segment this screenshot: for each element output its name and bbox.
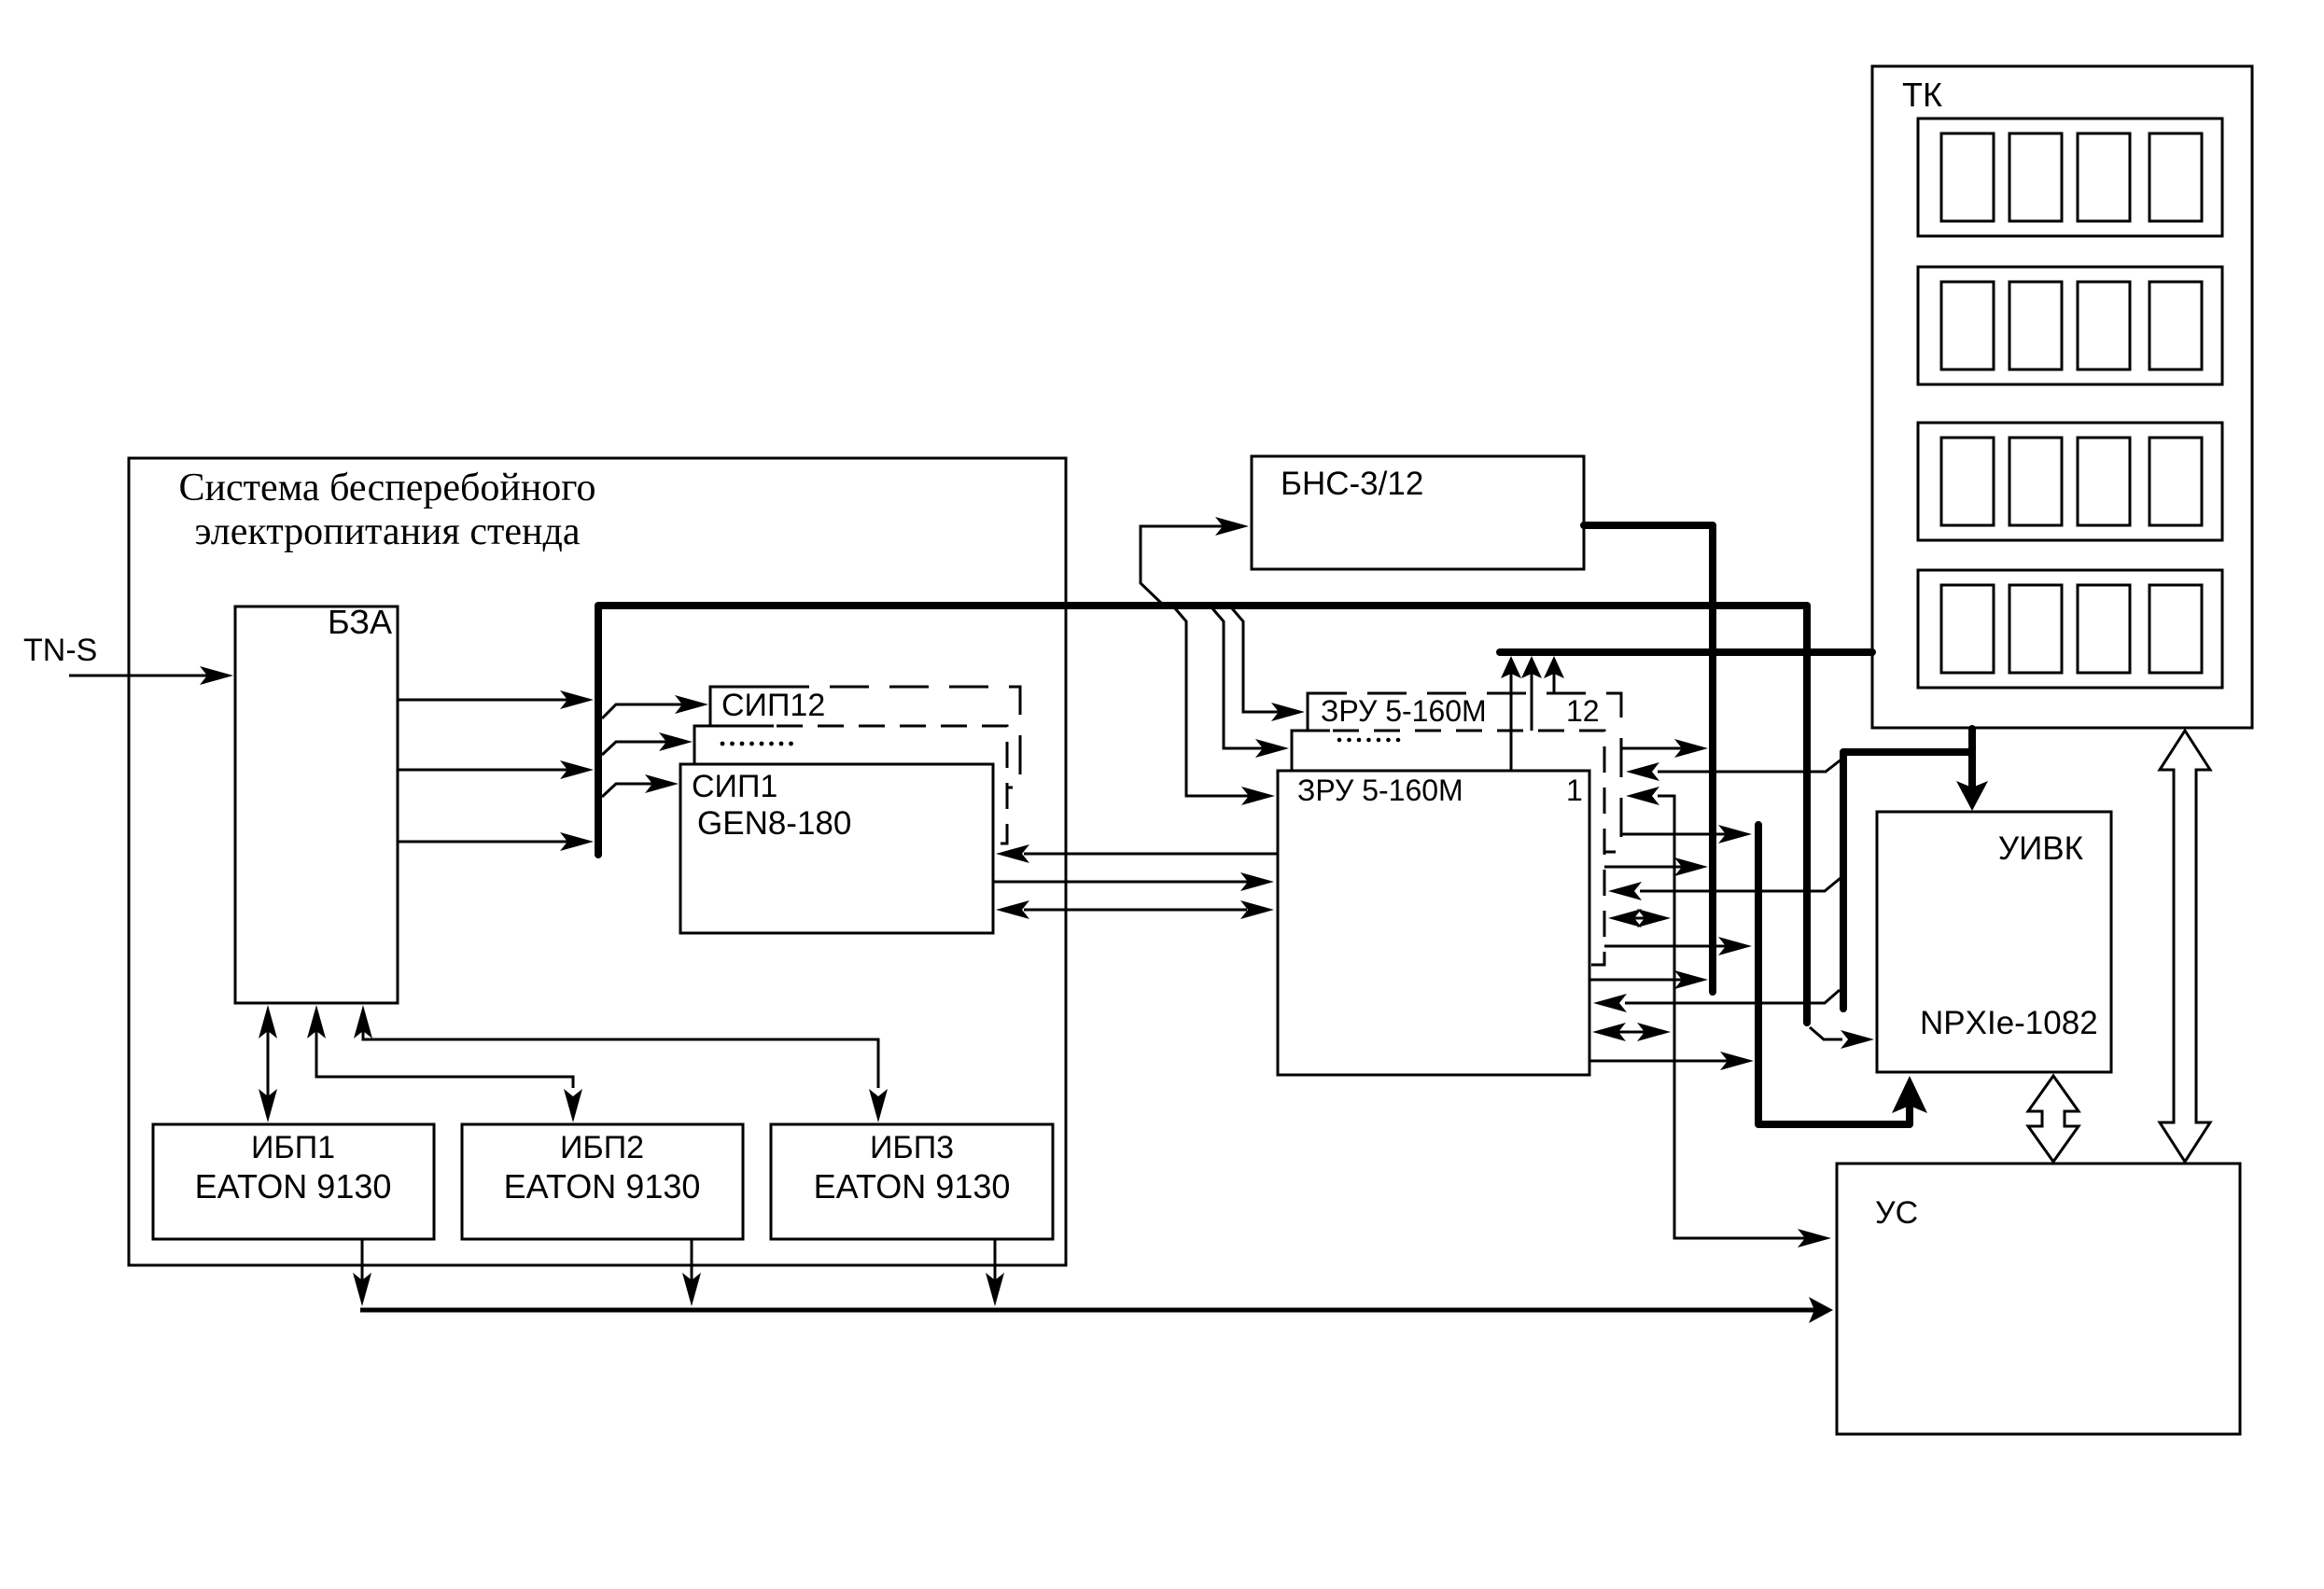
- svg-text:ТК: ТК: [1902, 76, 1942, 114]
- svg-text:УС: УС: [1875, 1195, 1918, 1231]
- svg-text:12: 12: [1566, 694, 1600, 728]
- svg-text:БНС-3/12: БНС-3/12: [1281, 466, 1423, 502]
- svg-text:ЗРУ 5-160М: ЗРУ 5-160М: [1321, 694, 1487, 728]
- svg-text:GEN8-180: GEN8-180: [697, 805, 851, 842]
- svg-text:ИБП1: ИБП1: [251, 1130, 335, 1165]
- svg-text:ИБП2: ИБП2: [560, 1130, 644, 1165]
- svg-text:NPXIe-1082: NPXIe-1082: [1920, 1005, 2098, 1041]
- svg-text:УИВК: УИВК: [1998, 830, 2084, 867]
- svg-text:ИБП3: ИБП3: [870, 1130, 954, 1165]
- svg-text:EATON 9130: EATON 9130: [504, 1167, 701, 1206]
- svg-text:БЗА: БЗА: [328, 603, 392, 641]
- svg-text:EATON 9130: EATON 9130: [195, 1167, 392, 1206]
- svg-text:электропитания стенда: электропитания стенда: [195, 510, 581, 553]
- svg-text:СИП12: СИП12: [721, 688, 825, 723]
- svg-text:TN-S: TN-S: [23, 633, 97, 668]
- svg-text:Система бесперебойного: Система бесперебойного: [179, 467, 596, 509]
- svg-text:EATON 9130: EATON 9130: [814, 1167, 1011, 1206]
- svg-text:СИП1: СИП1: [692, 769, 777, 804]
- svg-text:1: 1: [1566, 774, 1583, 807]
- svg-text:ЗРУ 5-160М: ЗРУ 5-160М: [1297, 774, 1463, 807]
